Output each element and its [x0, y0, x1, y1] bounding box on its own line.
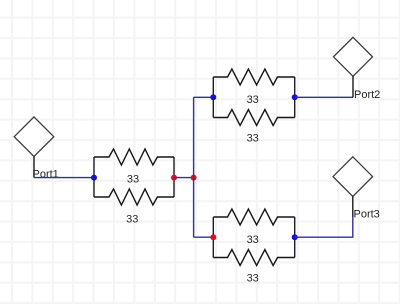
wire bus bottom to node N5	[194, 236, 214, 238]
wire node N6 to Port2	[295, 96, 353, 98]
svg-text:33: 33	[126, 213, 138, 225]
node N3 junction dot	[191, 175, 197, 181]
svg-text:Port1: Port1	[33, 168, 59, 180]
resistor R2	[94, 189, 174, 205]
wire right rail of R1/R2	[173, 157, 175, 197]
resistor R3	[213, 69, 294, 85]
node N7 junction dot	[292, 234, 298, 240]
value label R2 33	[126, 213, 138, 225]
resistor R4	[213, 110, 294, 126]
port Port1 pin	[33, 157, 35, 178]
value label R4 33	[247, 132, 259, 144]
node N4 junction dot	[210, 94, 216, 100]
node N6 junction dot	[292, 94, 298, 100]
wire vertical bus N3	[193, 97, 195, 237]
svg-text:Port2: Port2	[354, 89, 380, 101]
wire left rail of R3/R4	[212, 77, 214, 118]
value label R3 33	[247, 94, 259, 106]
port Port2 pin	[352, 76, 354, 97]
port Port1 diamond symbol	[14, 117, 54, 157]
resistor R5	[213, 209, 294, 225]
port Port3 pin	[352, 196, 354, 217]
svg-text:33: 33	[127, 174, 139, 186]
svg-text:Port3: Port3	[354, 208, 380, 220]
wire left rail of R5/R6	[212, 217, 214, 258]
resistor R6	[213, 250, 294, 266]
wire right rail of R3/R4	[294, 77, 296, 118]
value label R6 33	[247, 273, 259, 285]
node N5 junction dot	[210, 234, 216, 240]
resistor R1	[94, 149, 174, 165]
wire node N2 to node N3	[174, 177, 194, 179]
svg-text:33: 33	[247, 132, 259, 144]
svg-text:33: 33	[247, 94, 259, 106]
wire right rail of R5/R6	[294, 217, 296, 258]
port Port2 diamond symbol	[334, 37, 373, 76]
port Port3 diamond symbol	[333, 157, 373, 197]
svg-text:33: 33	[247, 273, 259, 285]
label Port3	[354, 208, 380, 220]
node N1 junction dot	[91, 175, 97, 181]
node N2 junction dot	[171, 175, 177, 181]
label Port2	[354, 89, 380, 101]
wire bus top to node N4	[194, 96, 214, 98]
label Port1	[33, 168, 59, 180]
value label R5 33	[247, 234, 259, 246]
value label R1 33	[127, 174, 139, 186]
wire node N7 to Port3 corner	[295, 217, 353, 237]
svg-text:33: 33	[247, 234, 259, 246]
wire left rail of R1/R2	[93, 157, 95, 197]
wire Port1 to node N1	[34, 177, 94, 179]
